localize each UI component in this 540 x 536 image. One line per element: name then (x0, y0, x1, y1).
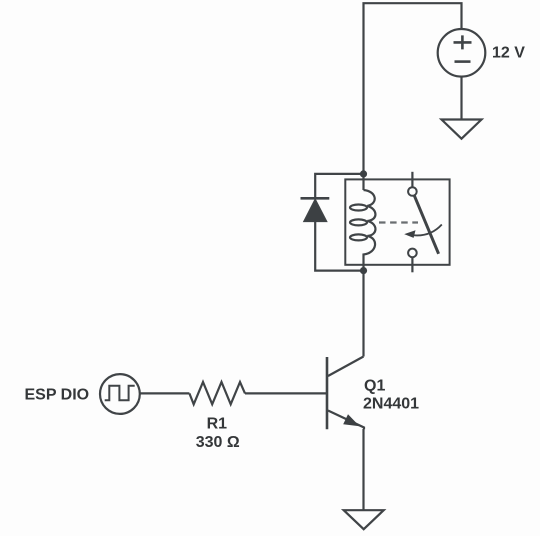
svg-text:12 V: 12 V (492, 45, 525, 62)
svg-text:ESP DIO: ESP DIO (25, 387, 90, 404)
transistor Q1 emitter lead (328, 411, 364, 430)
wire V1 to ground (460, 77, 462, 120)
relay switch bottom stub (411, 257, 413, 272)
wire node B to collector (362, 271, 364, 357)
plus sign of V1 (454, 35, 472, 49)
pulse source circle (100, 374, 140, 414)
emitter wire to ground (362, 429, 364, 510)
wire resistor to base (245, 392, 327, 394)
diode D1 cathode bar (301, 197, 330, 200)
svg-text:Q1: Q1 (364, 378, 385, 395)
relay K1 box (345, 179, 449, 264)
diode D1 body (304, 200, 327, 222)
resistor R1 zigzag (189, 382, 245, 404)
relay coil loop 3 (350, 234, 367, 240)
diode D1 branch bottom wire (315, 221, 363, 270)
diode D1 branch top wire (315, 174, 363, 198)
relay coil (364, 190, 376, 271)
transistor Q1 base bar (326, 357, 329, 429)
node A junction dot (360, 170, 367, 177)
relay coil loop 1 (350, 205, 367, 211)
transistor Q1 collector lead (328, 357, 364, 377)
minus sign of V1 (455, 60, 471, 63)
relay actuation arrow (409, 225, 442, 236)
ground (top right) (442, 120, 482, 139)
relay actuation dashed line (379, 221, 418, 223)
voltage source V1 12V (438, 29, 486, 77)
transistor Q1 emitter arrow (343, 414, 359, 426)
svg-text:R1: R1 (207, 415, 228, 432)
relay switch arm (414, 196, 438, 254)
relay switch top stub (411, 172, 413, 187)
relay switch bottom contact (408, 249, 417, 258)
relay coil entry wire (362, 174, 364, 190)
node B junction dot (360, 267, 367, 274)
relay switch top contact (408, 187, 417, 196)
pulse source waveform (105, 386, 135, 401)
relay coil loop 2 (350, 219, 367, 225)
svg-text:330 Ω: 330 Ω (196, 434, 240, 451)
ground (bottom) (344, 510, 384, 529)
wire pulse source to resistor (140, 392, 190, 394)
wire from node A up and across to 12V source (364, 3, 462, 174)
svg-text:2N4401: 2N4401 (363, 396, 419, 413)
